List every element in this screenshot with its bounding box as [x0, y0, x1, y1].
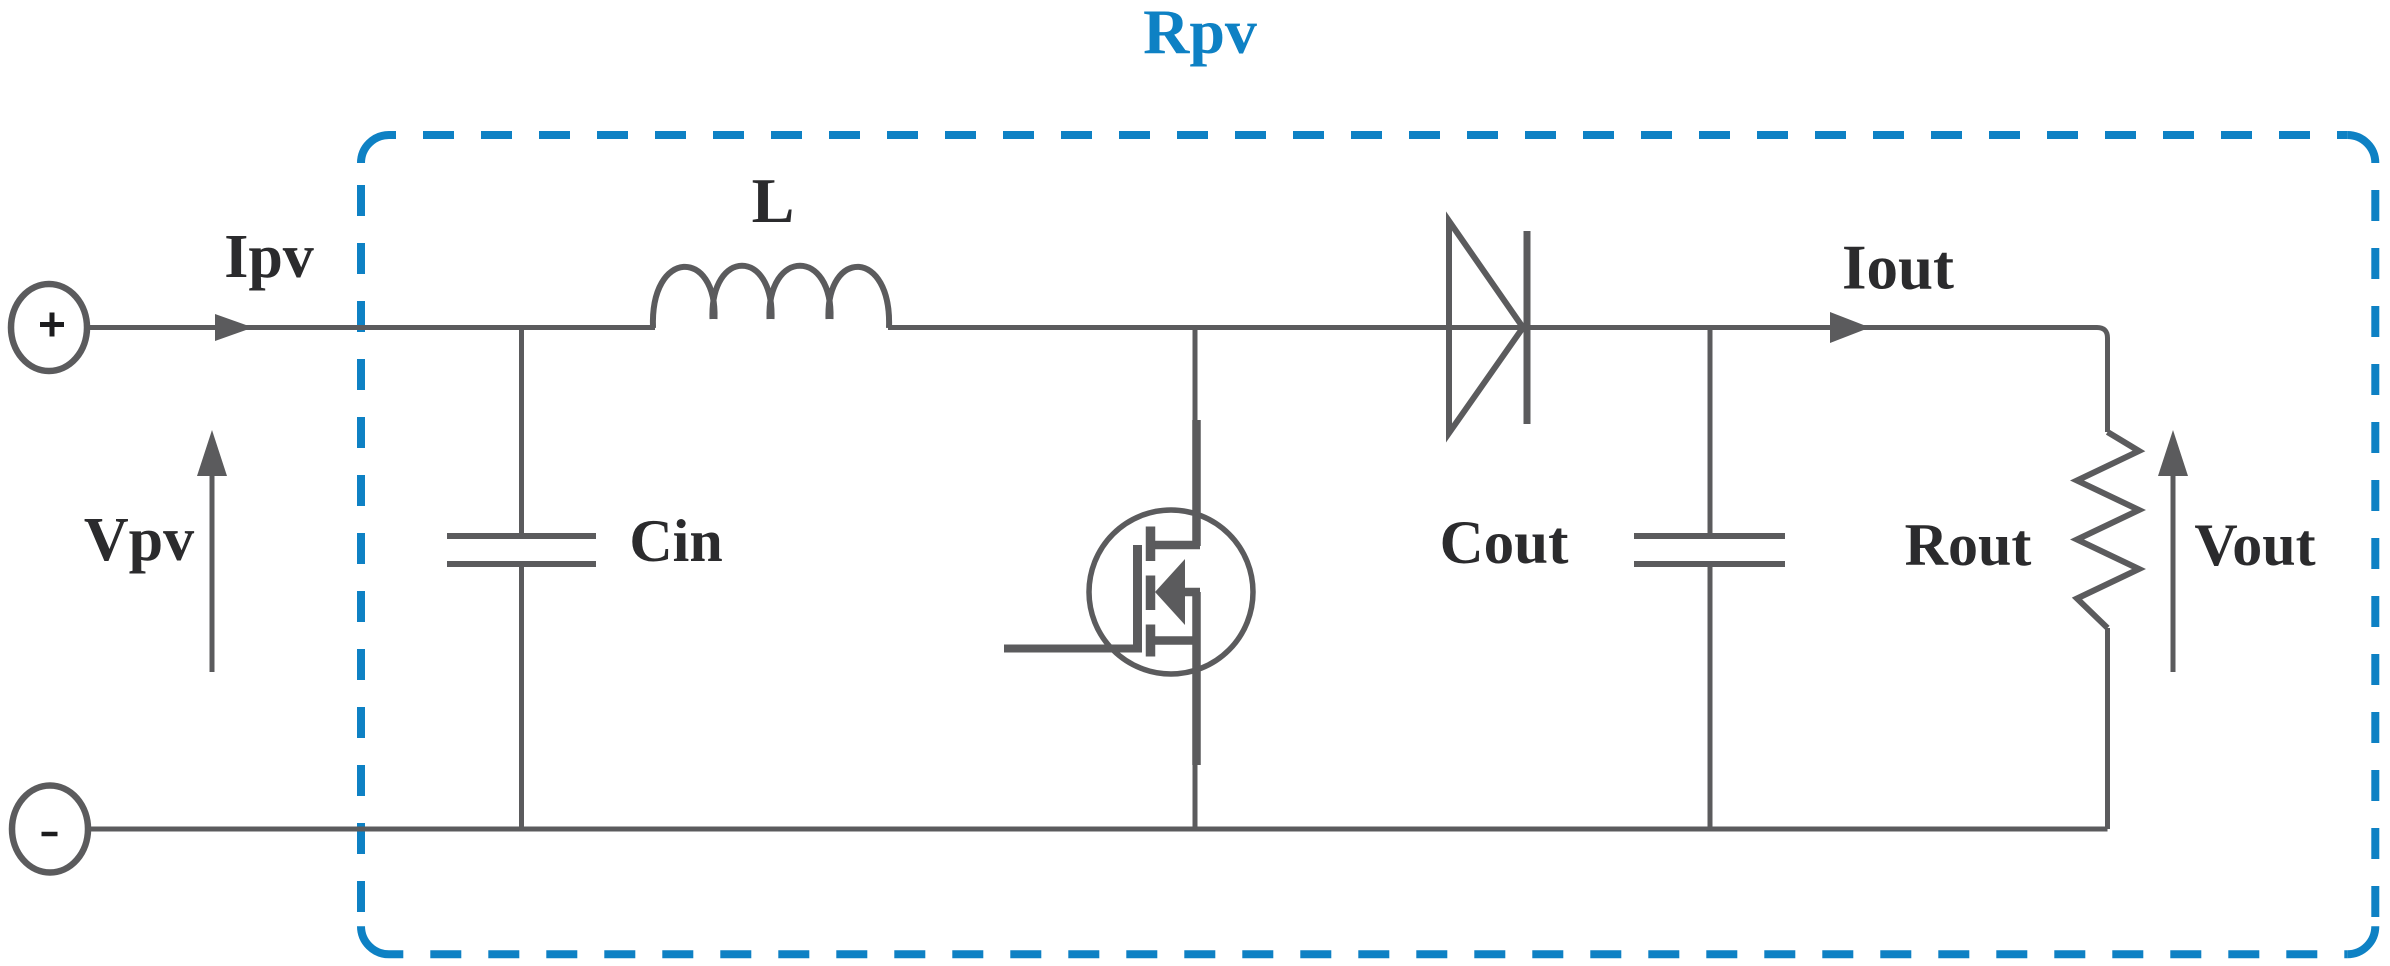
- label Vout: [2194, 512, 2315, 578]
- svg-text:Cout: Cout: [1440, 510, 1569, 577]
- boundary box bottom edge: [389, 950, 2347, 958]
- resistor Rout: [2077, 432, 2139, 628]
- label Rout: [1905, 512, 2032, 578]
- gate bar: [1133, 545, 1142, 647]
- wire top: + terminal to Cin junction: [89, 325, 523, 330]
- source lead thin: [1193, 765, 1198, 829]
- capacitor Cin: [447, 328, 596, 830]
- boundary box bottom-left corner: [361, 926, 389, 954]
- diode: [1449, 221, 1527, 433]
- wire bottom: - terminal to Rout bottom: [90, 827, 2108, 832]
- channel segment middle: [1146, 576, 1156, 611]
- svg-text:Iout: Iout: [1842, 233, 1954, 303]
- label Vpv: [84, 506, 194, 574]
- boundary box right edge: [2371, 163, 2379, 926]
- arrow Iout: [1830, 312, 1870, 343]
- wire right: Rout bottom to bottom wire: [2105, 628, 2110, 829]
- svg-text:L: L: [752, 165, 795, 236]
- svg-text:Rpv: Rpv: [1143, 0, 1257, 67]
- inductor L: [653, 266, 889, 328]
- arrow Vout: [2158, 430, 2188, 672]
- body arrow: [1155, 559, 1185, 625]
- arrow Vpv: [197, 430, 227, 672]
- label Cout: [1440, 510, 1569, 577]
- channel segment top: [1146, 527, 1156, 562]
- svg-text:Vout: Vout: [2194, 512, 2315, 578]
- arrow Ipv: [215, 314, 253, 341]
- boundary box bottom-right corner: [2347, 926, 2375, 954]
- source lead thick: [1192, 592, 1201, 765]
- source bar: [1152, 636, 1200, 645]
- wire top: inductor right to MOSFET drain junction: [888, 325, 1199, 330]
- label Cin: [629, 508, 722, 574]
- boundary box top-right corner: [2347, 135, 2375, 163]
- source terminal -: [12, 786, 88, 873]
- channel segment bottom: [1146, 625, 1156, 657]
- source terminal +: [11, 284, 87, 371]
- transistor MOSFET switch: [1004, 328, 1253, 830]
- drain lead thin: [1193, 328, 1198, 421]
- svg-text:Ipv: Ipv: [224, 223, 314, 291]
- wire top: Cout junction to right corner down to Rout top: [1710, 328, 2108, 433]
- capacitor Cout: [1634, 328, 1785, 830]
- svg-text:Rout: Rout: [1905, 512, 2032, 578]
- drain lead thick: [1192, 420, 1201, 546]
- svg-text:Cin: Cin: [629, 508, 722, 574]
- wire top: diode cathode to Cout junction: [1527, 325, 1710, 330]
- label Ipv: [224, 223, 314, 291]
- wire top: drain junction through diode to cathode: [1199, 325, 1530, 330]
- label Iout: [1842, 233, 1954, 303]
- boundary box Rpv dashed: top-left corner: [361, 135, 389, 163]
- label L: [752, 165, 795, 236]
- drain bar: [1152, 541, 1200, 550]
- node label Rpv (title): [1143, 0, 1257, 67]
- boundary box left edge: [357, 163, 365, 926]
- gate lead: [1004, 645, 1142, 653]
- wire top: Cin junction to inductor left: [523, 325, 655, 330]
- boundary box top edge: [389, 131, 2347, 139]
- svg-text:Vpv: Vpv: [84, 506, 194, 574]
